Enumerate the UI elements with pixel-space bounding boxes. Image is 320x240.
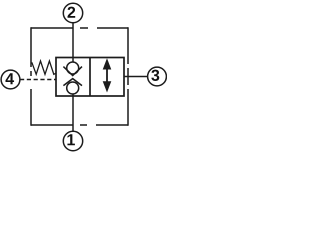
pilot line from port 4 (dashed) bbox=[20, 79, 56, 81]
port 1 circle bbox=[63, 131, 82, 150]
port 4 circle bbox=[1, 70, 20, 89]
double-headed flow arrow (right box) bbox=[103, 58, 112, 92]
check valve poppet bottom (ball under seat) bbox=[63, 79, 82, 86]
wire port 1 to body bbox=[72, 96, 74, 131]
valve body outline bbox=[56, 58, 124, 97]
port 3 circle bbox=[148, 67, 167, 86]
envelope (dashed cartridge boundary) bbox=[31, 27, 128, 126]
port 2 circle bbox=[63, 3, 82, 22]
wire port 2 to body bbox=[72, 23, 74, 58]
valve body divider bbox=[89, 58, 91, 97]
wire port 3 to body bbox=[124, 76, 148, 78]
spring bbox=[32, 61, 56, 74]
check valve poppet top (ball on seat) bbox=[72, 58, 74, 63]
